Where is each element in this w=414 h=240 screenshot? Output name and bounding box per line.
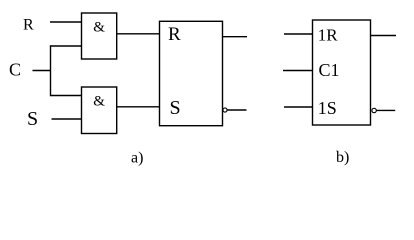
wire C branch to AND gate 2 input 1 (51, 95, 83, 97)
wire IC Q-bar output (377, 109, 396, 111)
svg-text:b): b) (336, 149, 349, 166)
svg-text:1R: 1R (318, 26, 339, 45)
wire C vertical branch (50, 45, 52, 96)
svg-text:a): a) (131, 150, 143, 167)
RS latch box (160, 21, 223, 125)
svg-text:C: C (9, 60, 21, 80)
svg-text:S: S (27, 108, 38, 130)
wire 1R input (284, 33, 313, 35)
IC flip-flop box (313, 20, 371, 125)
wire RS latch Q output (223, 36, 248, 38)
wire AND gate 1 output to RS latch R input (117, 33, 160, 35)
AND gate 2 box (82, 87, 117, 134)
wire C1 input (283, 70, 313, 72)
AND gate 1 box (82, 13, 117, 59)
svg-text:&: & (93, 94, 105, 110)
wire RS latch Q-bar output (227, 109, 246, 111)
wire R to AND gate 1 input (50, 21, 82, 23)
wire S to AND gate 2 input (52, 118, 83, 120)
inversion bubble on RS latch Q-bar output (223, 108, 227, 112)
wire IC Q output (371, 35, 397, 37)
svg-text:1S: 1S (318, 98, 337, 118)
inversion bubble on IC Q-bar output (372, 108, 376, 112)
svg-text:R: R (168, 24, 181, 45)
svg-text:C1: C1 (319, 60, 340, 80)
svg-text:S: S (170, 97, 181, 119)
wire 1S input (284, 106, 313, 108)
wire C branch to AND gate 1 input 2 (51, 45, 83, 47)
wire C stub (33, 70, 52, 72)
svg-text:R: R (23, 17, 34, 34)
wire AND gate 2 output to RS latch S input (117, 106, 160, 108)
svg-text:&: & (93, 20, 105, 36)
